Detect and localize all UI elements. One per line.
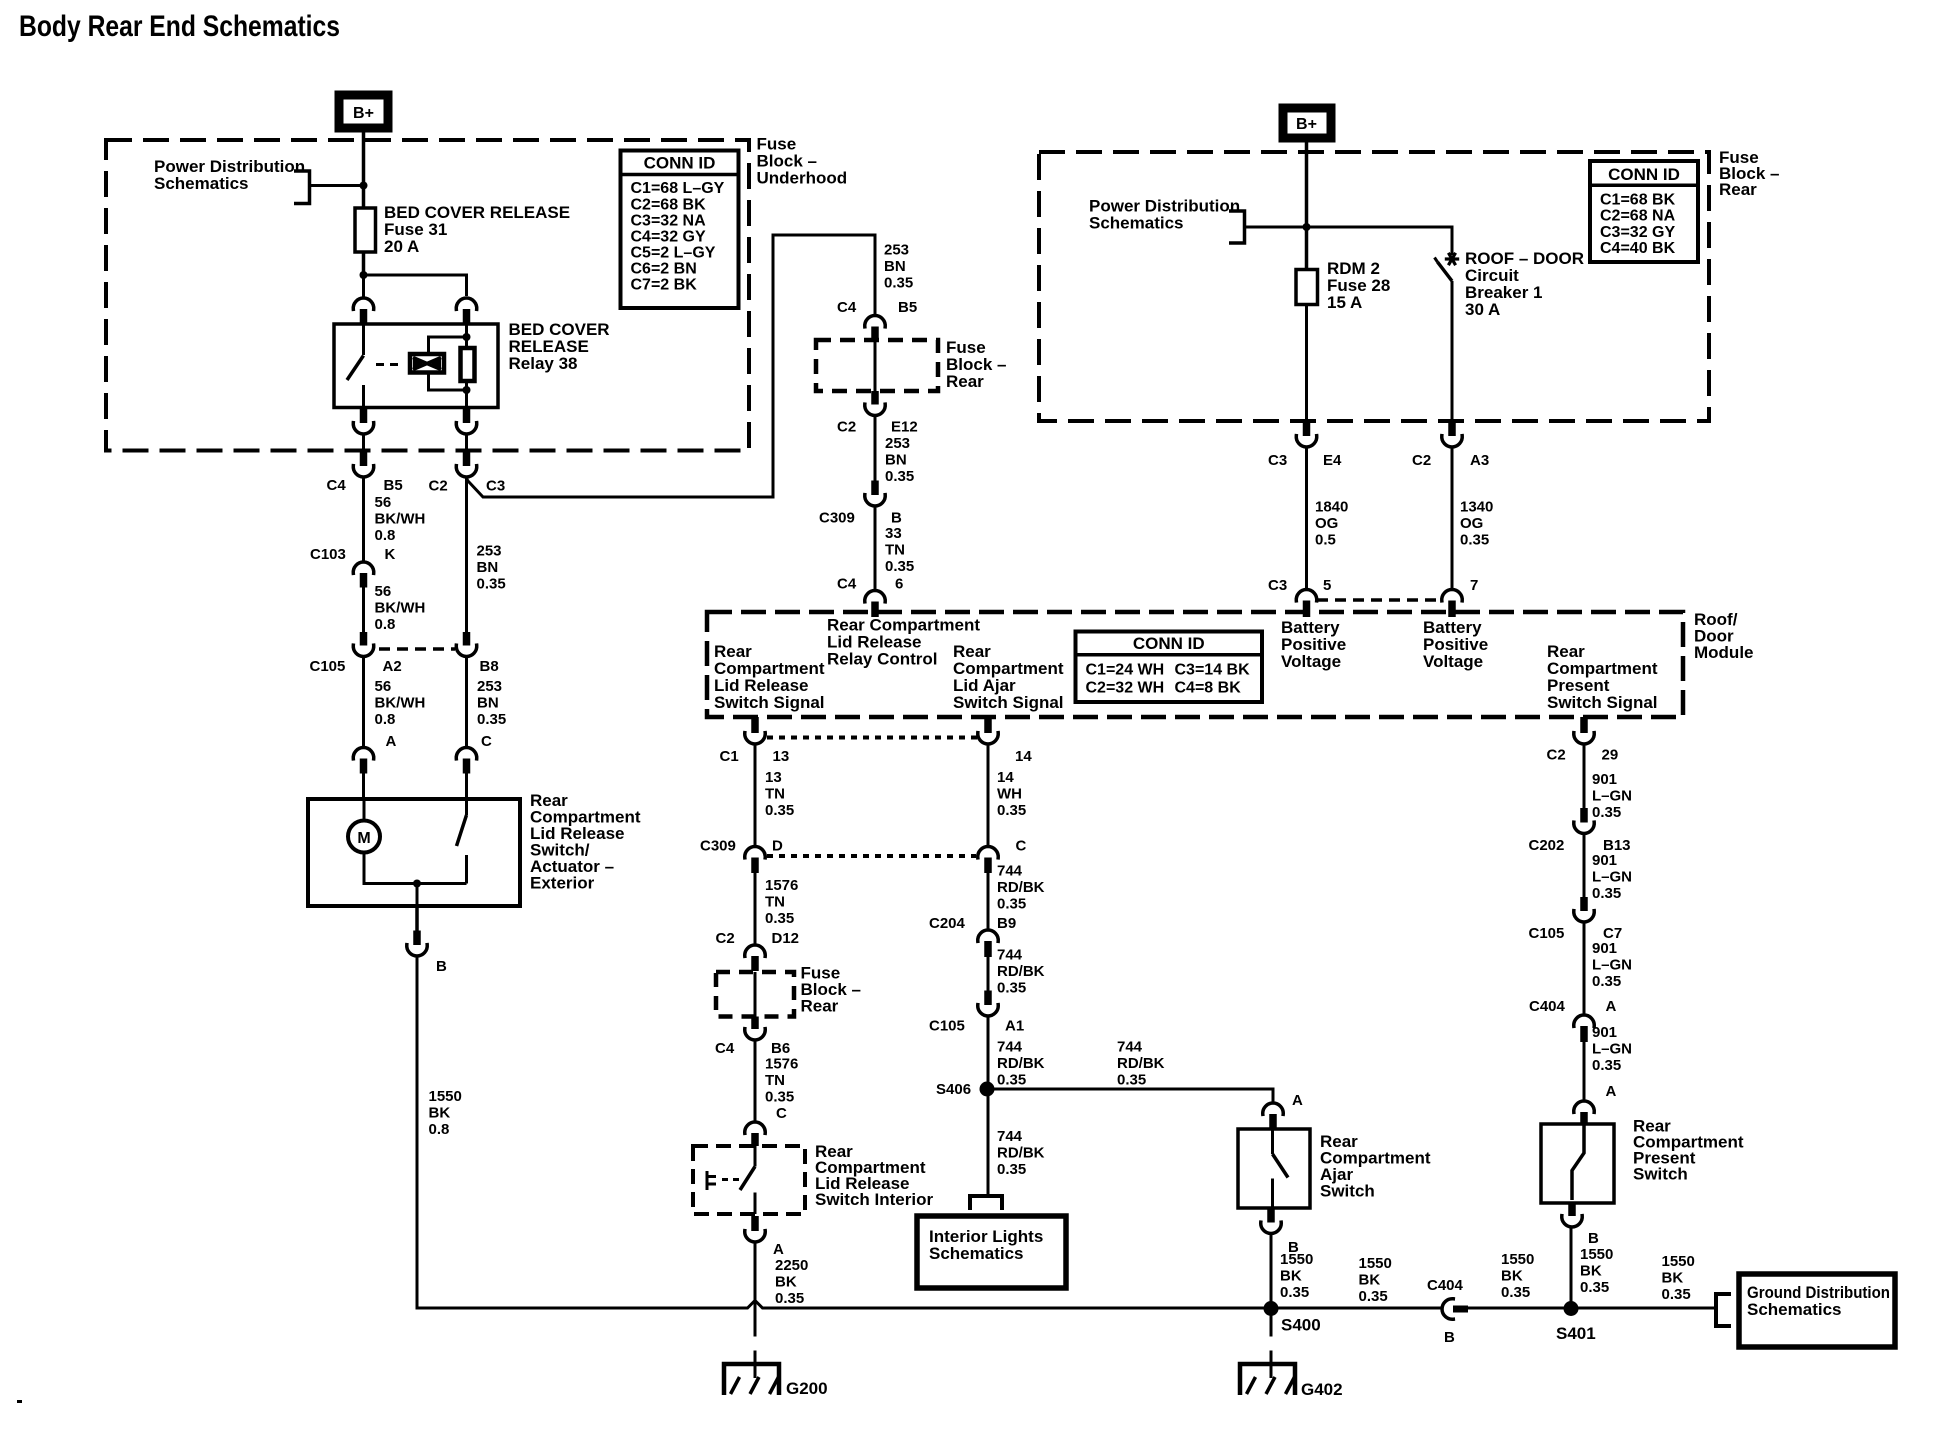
svg-text:0.35: 0.35 [1280, 1284, 1309, 1301]
connector pin B of present switch [1568, 1203, 1576, 1216]
svg-text:TN: TN [765, 1072, 785, 1089]
svg-text:BK: BK [1359, 1272, 1381, 1289]
wire 13 TN 0.35 [754, 746, 757, 846]
svg-text:TN: TN [765, 786, 785, 803]
svg-text:56: 56 [375, 678, 392, 695]
svg-text:Rear: Rear [1719, 180, 1757, 199]
svg-text:0.35: 0.35 [997, 1161, 1026, 1178]
svg-text:0.35: 0.35 [997, 802, 1026, 819]
ground G200 [724, 1364, 779, 1395]
svg-text:0.35: 0.35 [765, 1089, 794, 1106]
svg-text:744: 744 [997, 1039, 1023, 1056]
power terminal B+ (right) [1279, 104, 1335, 142]
svg-text:CONN ID: CONN ID [1133, 634, 1205, 653]
svg-text:0.35: 0.35 [1592, 973, 1621, 990]
svg-text:0.35: 0.35 [997, 1072, 1026, 1089]
svg-text:33: 33 [885, 525, 902, 542]
wire: breaker to connector A3 [1451, 281, 1454, 421]
wire: branch over to relay coil side [364, 275, 467, 296]
conn-id table (fuse block rear) [1590, 161, 1698, 262]
svg-text:B9: B9 [997, 915, 1016, 932]
wire: coil parallel bracket [429, 337, 467, 390]
wire 14 WH 0.35 [987, 746, 990, 846]
svg-text:56: 56 [375, 583, 392, 600]
wire 744 RD/BK 0.35 to S406 [987, 1018, 990, 1090]
svg-text:C2=32 WH: C2=32 WH [1086, 680, 1165, 697]
connector C404 pin B (inline) [1442, 1299, 1453, 1320]
svg-text:Voltage: Voltage [1281, 652, 1341, 671]
svg-text:Switch Interior: Switch Interior [815, 1190, 933, 1209]
wire 56 BK/WH 0.8 to C103 [362, 479, 365, 561]
connector C105 pin A1 [984, 991, 992, 1006]
svg-text:C5=2 L–GY: C5=2 L–GY [631, 245, 716, 262]
connector C105 pin A2 [360, 632, 368, 646]
svg-text:C2=68 NA: C2=68 NA [1600, 208, 1676, 225]
connector pin A of interior switch [751, 1216, 759, 1231]
svg-text:S401: S401 [1556, 1324, 1596, 1343]
svg-text:56: 56 [375, 494, 392, 511]
svg-text:BK: BK [429, 1105, 451, 1122]
svg-text:C4=32 GY: C4=32 GY [631, 228, 706, 245]
wire: down to relay switch connector [362, 275, 365, 297]
svg-text:0.8: 0.8 [375, 527, 396, 544]
svg-text:TN: TN [765, 894, 785, 911]
connector cap: relay pin (switch side) [353, 298, 373, 309]
svg-text:C404: C404 [1427, 1277, 1464, 1294]
svg-text:Schematics: Schematics [1747, 1300, 1842, 1319]
svg-text:A1: A1 [1005, 1018, 1024, 1035]
ground G402 [1240, 1364, 1295, 1395]
svg-text:C2: C2 [837, 419, 856, 436]
svg-text:744: 744 [997, 947, 1023, 964]
svg-text:L–GN: L–GN [1592, 869, 1632, 886]
node: branch to relay coil [360, 271, 368, 279]
svg-text:G402: G402 [1301, 1380, 1343, 1399]
off-page bracket: interior lights [970, 1196, 1002, 1210]
svg-text:D12: D12 [772, 930, 800, 947]
svg-text:13: 13 [765, 769, 782, 786]
connector C2 pin E12 [871, 391, 879, 405]
wire 744 RD/BK 0.35 to ajar switch [987, 1089, 1273, 1102]
connector C309 pin B [871, 481, 879, 496]
wire: B+ to RDM fuse [1305, 142, 1309, 270]
svg-text:0.35: 0.35 [885, 558, 914, 575]
svg-text:BK: BK [1580, 1263, 1602, 1280]
svg-text:744: 744 [997, 1128, 1023, 1145]
svg-text:0.35: 0.35 [477, 576, 506, 593]
svg-text:S406: S406 [936, 1081, 971, 1098]
svg-text:1550: 1550 [1580, 1246, 1613, 1263]
interior switch actuator symbol [707, 1171, 716, 1190]
svg-text:253: 253 [884, 242, 909, 259]
relay switch contact [362, 324, 365, 355]
svg-text:BN: BN [885, 452, 907, 469]
power terminal B+ (left) [335, 91, 392, 132]
relay outputs to connectors [360, 408, 368, 424]
dashed box: Rear Compartment Lid Release Switch Interior [693, 1146, 805, 1214]
wire: relay coil side vertical [465, 324, 468, 408]
wire S400 to G402 [1270, 1308, 1273, 1337]
svg-text:C105: C105 [1529, 925, 1565, 942]
relay K38 BED COVER RELEASE Relay 38 [334, 324, 498, 408]
connector tie C105 (dashed) [379, 647, 455, 651]
node: coil bottom [463, 386, 471, 394]
connector cup: relay output (coil) [456, 423, 477, 434]
svg-text:253: 253 [885, 435, 910, 452]
svg-text:RD/BK: RD/BK [1117, 1055, 1165, 1072]
svg-text:C7=2 BK: C7=2 BK [631, 277, 698, 294]
connector pin A of ajar switch [1263, 1103, 1283, 1114]
wire 1576 TN 0.35 [754, 873, 757, 944]
svg-text:253: 253 [477, 678, 502, 695]
svg-text:B: B [436, 958, 447, 975]
svg-text:Relay Control: Relay Control [827, 650, 938, 669]
svg-text:C3=32 NA: C3=32 NA [631, 212, 707, 229]
svg-text:A2: A2 [383, 658, 402, 675]
svg-text:1576: 1576 [765, 877, 798, 894]
svg-text:14: 14 [997, 769, 1014, 786]
box: Rear Compartment Lid Release Switch/Actuator - Exterior [308, 799, 520, 906]
svg-text:A: A [773, 1241, 784, 1258]
svg-text:0.8: 0.8 [375, 616, 396, 633]
svg-text:Switch Signal: Switch Signal [953, 693, 1064, 712]
wire 1340 OG 0.35 [1451, 449, 1454, 589]
svg-text:C2: C2 [429, 478, 448, 495]
svg-text:C309: C309 [819, 510, 855, 527]
connector pin B of ajar switch [1267, 1208, 1275, 1223]
svg-text:C: C [1016, 838, 1027, 855]
fuse F31 BED COVER RELEASE 20A [355, 208, 376, 252]
svg-text:BK: BK [1280, 1268, 1302, 1285]
svg-text:0.35: 0.35 [1592, 1057, 1621, 1074]
svg-text:A: A [1292, 1092, 1303, 1109]
svg-text:Switch: Switch [1320, 1182, 1375, 1201]
wire to actuator pin A [362, 658, 365, 746]
svg-text:C4: C4 [715, 1040, 735, 1057]
present switch contact [1572, 1124, 1584, 1200]
svg-text:Schematics: Schematics [1089, 214, 1184, 233]
svg-text:C6=2 BN: C6=2 BN [631, 261, 697, 278]
connector C3 pin E4 [1303, 421, 1311, 436]
svg-text:5: 5 [1323, 577, 1331, 594]
wire: fuse 28 to connector E4 [1305, 305, 1308, 422]
svg-text:Switch: Switch [1633, 1165, 1688, 1184]
svg-text:RD/BK: RD/BK [997, 963, 1045, 980]
connector tie (dotted) C309 row [767, 854, 976, 858]
svg-text:BK/WH: BK/WH [375, 600, 426, 617]
connector cap: relay pin (coil side) [456, 298, 477, 309]
wire through fuse block 2 [754, 972, 757, 1017]
svg-text:Rear: Rear [946, 372, 984, 391]
svg-text:C1=68 L–GY: C1=68 L–GY [631, 180, 725, 197]
svg-text:15 A: 15 A [1327, 293, 1362, 312]
wire to actuator pin C [465, 658, 468, 746]
svg-text:K: K [385, 546, 396, 563]
svg-text:Switch Signal: Switch Signal [714, 693, 825, 712]
wire 744 RD/BK 0.35 to interior lights [987, 1089, 990, 1196]
wire 744 RD/BK 0.35 [987, 873, 990, 929]
svg-text:C202: C202 [1529, 837, 1565, 854]
stray mark [17, 1400, 22, 1403]
fuse F28 RDM 2 15A [1296, 270, 1318, 305]
svg-text:1550: 1550 [429, 1088, 462, 1105]
svg-text:C4=40 BK: C4=40 BK [1600, 240, 1676, 257]
svg-text:BK/WH: BK/WH [375, 511, 426, 528]
dashed box: fuse block rear (feed) [816, 340, 938, 391]
svg-text:RD/BK: RD/BK [997, 1055, 1045, 1072]
svg-text:C3=32 GY: C3=32 GY [1600, 224, 1675, 241]
wire 1550 BK 0.35 to S400 [1270, 1235, 1273, 1308]
connector tie (dashed, module top) [1317, 598, 1441, 602]
svg-text:1550: 1550 [1359, 1255, 1392, 1272]
ground bus wire 1550 BK [418, 1301, 1441, 1309]
wire 253 BN 0.35 (C3 to B8) [465, 479, 468, 633]
wire 1550 BK 0.8 to ground bus [417, 958, 748, 1309]
connector cup: relay output (switch) [353, 423, 374, 434]
circuit breaker CB1 ROOF-DOOR 30A [1445, 253, 1459, 265]
splice S406 [980, 1082, 995, 1097]
svg-text:B6: B6 [771, 1040, 790, 1057]
connector C1 pin 13 [751, 717, 759, 733]
svg-text:BK: BK [1662, 1270, 1684, 1287]
svg-text:B5: B5 [384, 477, 403, 494]
svg-text:BK: BK [775, 1274, 797, 1291]
svg-text:B+: B+ [1296, 116, 1317, 133]
svg-text:BK/WH: BK/WH [375, 695, 426, 712]
wire 253 BN 0.35 to C309 [874, 417, 877, 481]
svg-text:RD/BK: RD/BK [997, 879, 1045, 896]
svg-text:Exterior: Exterior [530, 874, 595, 893]
svg-text:BK: BK [1501, 1268, 1523, 1285]
svg-text:14: 14 [1015, 748, 1032, 765]
wire 1576 TN 0.35 (2) [754, 1042, 757, 1121]
connector C4 pin B6 [751, 1017, 759, 1030]
svg-text:1550: 1550 [1662, 1253, 1695, 1270]
svg-text:A3: A3 [1470, 452, 1489, 469]
dashed box: fuse block underhood (power distribution) [106, 140, 749, 451]
svg-text:A: A [1606, 998, 1617, 1015]
svg-text:744: 744 [997, 863, 1023, 880]
svg-text:0.35: 0.35 [1460, 532, 1489, 549]
svg-text:M: M [357, 830, 370, 847]
wire 2250 BK 0.35 to G200 [754, 1244, 757, 1337]
svg-text:OG: OG [1460, 515, 1483, 532]
svg-text:C404: C404 [1529, 998, 1566, 1015]
svg-text:0.35: 0.35 [765, 802, 794, 819]
svg-text:0.35: 0.35 [765, 910, 794, 927]
connector C2 pin 29 (module) [1580, 717, 1588, 733]
svg-text:1550: 1550 [1280, 1251, 1313, 1268]
svg-text:C1=68 BK: C1=68 BK [1600, 192, 1676, 209]
connector tie (dotted) module bottom [767, 736, 977, 740]
svg-text:B8: B8 [480, 658, 499, 675]
svg-text:Module: Module [1694, 643, 1754, 662]
svg-text:C2=68 BK: C2=68 BK [631, 196, 707, 213]
svg-text:B: B [1444, 1329, 1455, 1346]
box: Ground Distribution Schematics [1739, 1274, 1895, 1347]
ajar switch contact [1271, 1129, 1274, 1154]
wire: bracket to node (right) [1246, 226, 1307, 229]
connector C202 pin B13 [1580, 808, 1588, 823]
svg-text:1340: 1340 [1460, 499, 1493, 516]
svg-text:1840: 1840 [1315, 499, 1348, 516]
svg-text:30 A: 30 A [1465, 300, 1500, 319]
svg-text:Body Rear End Schematics: Body Rear End Schematics [19, 10, 340, 43]
motor M in actuator [363, 799, 366, 820]
svg-text:C1=24 WH: C1=24 WH [1086, 662, 1165, 679]
svg-text:CONN ID: CONN ID [644, 154, 716, 173]
svg-text:13: 13 [773, 748, 790, 765]
svg-text:0.35: 0.35 [1592, 804, 1621, 821]
svg-text:C4: C4 [837, 299, 857, 316]
dashed box: fuse block rear (interior sw) [716, 972, 794, 1017]
svg-text:L–GN: L–GN [1592, 957, 1632, 974]
svg-text:C4=8 BK: C4=8 BK [1175, 680, 1242, 697]
wire 33 TN 0.35 to module [874, 508, 877, 590]
svg-text:Underhood: Underhood [757, 169, 848, 188]
svg-text:C3: C3 [1268, 577, 1287, 594]
splice S400 [1264, 1301, 1279, 1316]
svg-text:20 A: 20 A [384, 237, 419, 256]
wire 1550 BK 0.35 to S401 [1570, 1229, 1573, 1309]
svg-text:A: A [386, 733, 397, 750]
svg-text:0.8: 0.8 [429, 1121, 450, 1138]
svg-text:C4: C4 [837, 576, 857, 593]
svg-text:E12: E12 [891, 419, 918, 436]
svg-text:C105: C105 [310, 658, 346, 675]
svg-text:BN: BN [884, 258, 906, 275]
connector pin B of actuator [415, 906, 419, 931]
svg-text:BN: BN [477, 695, 499, 712]
node: junction at B+ feed [360, 182, 368, 190]
svg-text:Relay 38: Relay 38 [509, 354, 578, 373]
connector C2 pin A3 [1448, 421, 1456, 436]
wire 56 BK/WH 0.8 to C105 [362, 588, 365, 633]
svg-text:0.35: 0.35 [1501, 1284, 1530, 1301]
svg-text:Rear: Rear [801, 997, 839, 1016]
off-page bracket: ground distribution [1716, 1294, 1731, 1326]
splice S401 [1564, 1301, 1579, 1316]
svg-text:C309: C309 [700, 838, 736, 855]
node: junction right B+ feed [1303, 223, 1311, 231]
wire through fuse block [874, 341, 877, 391]
off-page bracket: Power Distribution Schematics (right) [1229, 211, 1245, 243]
svg-text:BN: BN [477, 559, 499, 576]
dashed box: fuse block rear (right) [1039, 152, 1709, 421]
svg-text:Switch Signal: Switch Signal [1547, 693, 1658, 712]
svg-text:0.5: 0.5 [1315, 532, 1336, 549]
svg-text:Schematics: Schematics [929, 1244, 1024, 1263]
svg-text:901: 901 [1592, 940, 1617, 957]
svg-text:B: B [1588, 1230, 1599, 1247]
svg-text:Schematics: Schematics [154, 174, 249, 193]
wire 901 L-GN 0.35 (3) [1583, 924, 1586, 1014]
svg-text:0.35: 0.35 [1662, 1286, 1691, 1303]
wire: B+ to fuse 31 [362, 132, 366, 208]
svg-text:0.35: 0.35 [1117, 1072, 1146, 1089]
interior switch contact [754, 1146, 757, 1167]
svg-text:C3: C3 [1268, 452, 1287, 469]
svg-text:29: 29 [1602, 747, 1619, 764]
svg-text:0.35: 0.35 [997, 896, 1026, 913]
svg-text:0.35: 0.35 [884, 275, 913, 292]
svg-text:0.8: 0.8 [375, 711, 396, 728]
node: coil top [463, 333, 471, 341]
connector C105 pin C7 [1580, 897, 1588, 911]
svg-text:Voltage: Voltage [1423, 652, 1483, 671]
wire: motor to common [364, 853, 467, 884]
switch blade in actuator [465, 799, 468, 815]
wire 901 L-GN 0.35 (4) [1583, 1042, 1586, 1100]
svg-text:TN: TN [885, 542, 905, 559]
svg-text:B5: B5 [898, 299, 917, 316]
connector pin 14 (module) [984, 717, 992, 733]
svg-text:0.35: 0.35 [1359, 1288, 1388, 1305]
conn-id table (module) [1076, 632, 1263, 703]
connector C4 pin B5 (left wire) [360, 452, 368, 466]
node: actuator common [413, 880, 421, 888]
svg-text:744: 744 [1117, 1039, 1143, 1056]
connector C105 pin B8 [463, 632, 471, 646]
svg-text:C204: C204 [929, 915, 966, 932]
wire: branch to circuit breaker [1307, 227, 1453, 255]
svg-text:2250: 2250 [775, 1257, 808, 1274]
svg-text:C2: C2 [716, 930, 735, 947]
dashed box: Roof/Door Module [707, 612, 1683, 717]
svg-text:L–GN: L–GN [1592, 788, 1632, 805]
box: Rear Compartment Present Switch [1541, 1124, 1614, 1203]
wire 1840 OG 0.5 [1305, 449, 1308, 589]
svg-text:253: 253 [477, 543, 502, 560]
svg-text:L–GN: L–GN [1592, 1041, 1632, 1058]
connector C2 pin C3 [463, 452, 471, 466]
svg-text:B+: B+ [353, 105, 374, 122]
relay mechanical link (dashed) [376, 363, 404, 366]
svg-text:1576: 1576 [765, 1056, 798, 1073]
svg-text:C105: C105 [929, 1018, 965, 1035]
svg-text:C: C [481, 733, 492, 750]
svg-text:7: 7 [1470, 577, 1478, 594]
svg-text:901: 901 [1592, 852, 1617, 869]
svg-text:RD/BK: RD/BK [997, 1145, 1045, 1162]
svg-text:0.35: 0.35 [885, 468, 914, 485]
wire: bracket to node [311, 184, 364, 187]
svg-text:WH: WH [997, 786, 1022, 803]
svg-text:S400: S400 [1281, 1316, 1321, 1335]
svg-text:C3: C3 [486, 478, 505, 495]
svg-text:CONN ID: CONN ID [1608, 165, 1680, 184]
conn-id table (fuse block underhood) [621, 151, 739, 309]
svg-text:C: C [776, 1105, 787, 1122]
svg-text:0.35: 0.35 [1592, 885, 1621, 902]
box: Interior Lights Schematics [917, 1216, 1066, 1288]
svg-text:C2: C2 [1547, 747, 1566, 764]
wire 744 RD/BK 0.35 (2) [987, 957, 990, 991]
resistor in relay (parallel) [461, 348, 475, 381]
svg-text:0.35: 0.35 [477, 711, 506, 728]
svg-text:OG: OG [1315, 515, 1338, 532]
svg-text:0.35: 0.35 [775, 1290, 804, 1307]
svg-text:A: A [1606, 1083, 1617, 1100]
svg-text:E4: E4 [1323, 452, 1342, 469]
box: Rear Compartment Ajar Switch [1238, 1129, 1310, 1208]
svg-text:C4: C4 [327, 477, 347, 494]
svg-text:901: 901 [1592, 1024, 1617, 1041]
svg-text:G200: G200 [786, 1379, 828, 1398]
wire to ground G200 [754, 1351, 757, 1379]
svg-text:C1: C1 [720, 748, 739, 765]
wire 901 L-GN 0.35 (1) [1583, 746, 1586, 809]
